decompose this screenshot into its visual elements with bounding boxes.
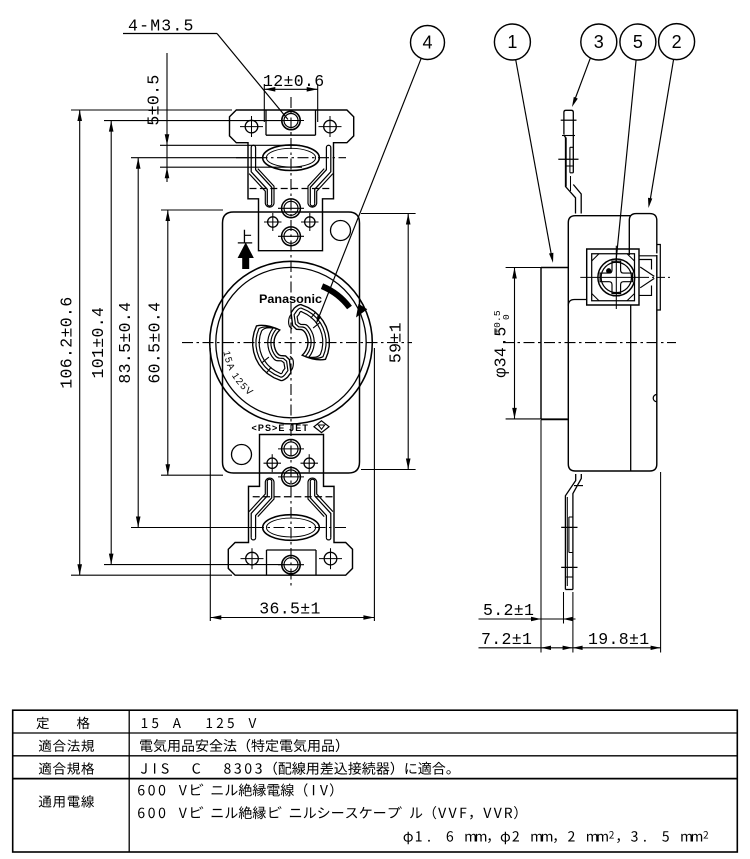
circular face outer: [210, 261, 373, 424]
phillips cross recess: [600, 261, 632, 293]
svg-text:12±0.6: 12±0.6: [263, 72, 325, 91]
svg-text:+0.5: +0.5: [492, 310, 503, 334]
table label teikaku: [37, 717, 90, 730]
table label tekigou houki: [39, 740, 94, 752]
table wire line 3: [404, 831, 708, 844]
screw dot: [607, 269, 611, 273]
strap bend dash line: [250, 188, 333, 190]
svg-text:3: 3: [594, 32, 604, 52]
up (kami) mark: [238, 230, 252, 244]
leader balloon 3: [572, 58, 590, 107]
dim 36.5 +-1 (face diameter): [210, 348, 374, 621]
svg-text:0: 0: [501, 314, 512, 320]
balloon callout 1: [494, 24, 530, 60]
terminal screw box: [587, 249, 639, 305]
dim 101 +-0.4: [89, 121, 285, 565]
svg-text:59±1: 59±1: [387, 322, 406, 363]
svg-text:5±0.5: 5±0.5: [145, 74, 164, 125]
table wire line 1: [138, 783, 333, 796]
leader balloon 4: [316, 58, 421, 324]
svg-text:106.2±0.6: 106.2±0.6: [58, 296, 77, 388]
dim 5 +-0.5 (oval slot): [145, 53, 303, 182]
solid up arrow: [238, 244, 253, 269]
leader balloon 2: [648, 59, 674, 208]
svg-text:19.8±1: 19.8±1: [588, 630, 650, 649]
svg-text:60.5±0.4: 60.5±0.4: [146, 302, 165, 384]
ear screw hole right: [324, 120, 337, 133]
wire funnel: [639, 260, 654, 296]
locking slot right (rotated copy): [289, 305, 330, 360]
strap main screw M3.5: [282, 111, 300, 129]
dim 59 +-1 (plate height): [361, 214, 416, 470]
balloon callout 3: [581, 24, 617, 60]
side strap lower tab: [561, 474, 583, 590]
extension lines bottom side view: [541, 420, 661, 653]
side view body outline: [568, 216, 657, 471]
ear screw hole left: [245, 120, 258, 133]
svg-text:101±0.4: 101±0.4: [89, 307, 108, 379]
svg-text:4-M3.5: 4-M3.5: [128, 17, 195, 36]
bottom mounting strap/bracket (rotated copy): [228, 435, 352, 576]
svg-text:2: 2: [672, 32, 682, 52]
svg-text:36.5±1: 36.5±1: [259, 600, 321, 619]
table value JIS C 8303: [141, 762, 451, 775]
side view front flange (round face from side): [541, 268, 568, 420]
table label tsuuyou densen: [39, 795, 94, 808]
neck screws on plate (top): [264, 199, 319, 246]
svg-text:4: 4: [422, 33, 432, 53]
side strap upper tab: [558, 110, 581, 213]
strap hairpin slot right wing: [308, 145, 333, 207]
svg-text:Panasonic: Panasonic: [259, 292, 322, 306]
body ledge: [568, 300, 586, 306]
dim 5.2 bottom: [479, 601, 576, 621]
spec table frame: [13, 710, 738, 852]
label 4-M3.5 with leader: [123, 17, 288, 120]
table wire line 2: [138, 806, 517, 820]
top mounting strap/bracket: [230, 110, 354, 251]
dim 60.5 +-0.4: [146, 210, 224, 475]
table value denki yohin anzenhou: [140, 739, 339, 752]
balloon callout 4: [411, 26, 445, 60]
strap hairpin slot left wing: [249, 145, 274, 207]
side view center line: [503, 342, 676, 344]
small rivet left: [268, 217, 278, 227]
small rivet right: [305, 217, 315, 227]
rear cover bump: [629, 214, 657, 255]
plate hole bottom-left: [232, 445, 252, 465]
leader balloon 1: [516, 60, 554, 263]
table label tekigou kikaku: [39, 762, 94, 775]
terminal block rear wall: [657, 245, 661, 311]
svg-text:5.2±1: 5.2±1: [483, 601, 534, 620]
JET diamond mark: [314, 421, 329, 433]
dim phi 34.5 (flange): [492, 268, 568, 419]
svg-text:1: 1: [507, 32, 517, 52]
dim 83.5 +-0.4: [116, 158, 264, 528]
leader balloon 5: [616, 60, 636, 262]
screw crosshair: [615, 246, 617, 309]
receptacle body plate (front view): [223, 212, 360, 473]
cover separation line: [630, 305, 632, 471]
balloon callout 5: [620, 24, 656, 60]
dim 19.8 bottom: [573, 630, 661, 650]
right edge notch: [653, 395, 657, 402]
svg-text:7.2±1: 7.2±1: [481, 630, 532, 649]
table value 15A 125V: [142, 718, 256, 728]
dim 106.2 +-0.6: [58, 110, 233, 575]
balloon callout 2: [659, 24, 695, 60]
circular face inner rim: [216, 267, 366, 417]
svg-text:<PS>E JET: <PS>E JET: [252, 423, 309, 433]
svg-text:5: 5: [633, 32, 643, 52]
rotation direction arrow: [322, 286, 350, 307]
terminal screw head: [598, 259, 635, 296]
plate hole top-right: [331, 221, 351, 241]
dim 12 +-0.6 (screw box): [263, 72, 325, 122]
strap oval mounting slot: [263, 145, 320, 171]
locking slot left (with hook): [253, 325, 294, 380]
dim 7.2 bottom: [479, 630, 661, 650]
front view center lines: [182, 97, 412, 588]
svg-text:83.5±0.4: 83.5±0.4: [116, 302, 135, 384]
